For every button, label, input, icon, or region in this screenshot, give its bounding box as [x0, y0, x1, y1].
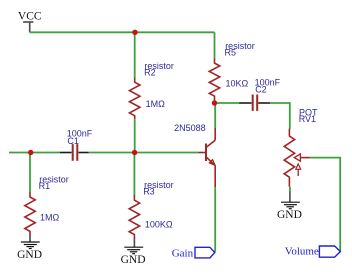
svg-text:GND: GND [17, 249, 42, 261]
svg-text:1MΩ: 1MΩ [40, 213, 60, 223]
ground for R1 [21, 235, 40, 249]
net flag Gain [195, 247, 215, 258]
node junction input R1 tap [28, 150, 33, 155]
net flag Volume [319, 246, 340, 257]
svg-text:R5: R5 [225, 48, 237, 58]
svg-text:R3: R3 [143, 187, 155, 197]
transistor Q1 2N5088 [199, 128, 216, 187]
svg-text:Volume: Volume [285, 246, 319, 258]
potentiometer RV1 [284, 129, 310, 187]
wire R1 top lead [29, 153, 31, 193]
ground for R3 [124, 238, 143, 253]
wire POT bottom to ground [289, 187, 291, 192]
wire collector to node [214, 104, 216, 128]
svg-text:R2: R2 [144, 68, 156, 78]
svg-text:VCC: VCC [18, 11, 42, 23]
node junction mid rail R3 tap [132, 150, 137, 155]
svg-text:RV1: RV1 [299, 114, 316, 124]
wire wiper to Volume [310, 158, 340, 251]
svg-text:GND: GND [277, 209, 302, 221]
svg-text:R1: R1 [39, 181, 51, 191]
node junction top rail R2 tap [132, 30, 137, 35]
power symbol VCC [23, 22, 33, 32]
svg-text:C2: C2 [255, 85, 267, 95]
wire top rail VCC [30, 31, 215, 33]
wire R2 bottom to mid rail [134, 119, 136, 152]
resistor R3 [129, 195, 139, 239]
resistor R2 [130, 78, 140, 120]
wire C2 to POT [270, 103, 290, 129]
resistor R5 [209, 59, 219, 101]
capacitor C2 [239, 95, 270, 111]
resistor R1 [25, 192, 35, 235]
wire R5 top lead [214, 32, 216, 59]
svg-text:1MΩ: 1MΩ [146, 99, 166, 109]
svg-text:2N5088: 2N5088 [174, 123, 206, 133]
node junction collector [212, 100, 217, 105]
wire emitter to Gain [214, 187, 216, 252]
svg-text:C1: C1 [67, 136, 79, 146]
svg-text:Gain: Gain [172, 247, 194, 259]
ground for RV1 [281, 192, 300, 209]
svg-text:GND: GND [121, 254, 146, 266]
svg-text:100KΩ: 100KΩ [145, 219, 173, 229]
wire mid rail C1 to base [89, 152, 199, 154]
capacitor C1 [60, 144, 89, 161]
wire R3 top lead [133, 153, 135, 196]
svg-text:10KΩ: 10KΩ [226, 78, 249, 88]
wire collector node rail [214, 100, 216, 103]
wire input mid rail [9, 152, 60, 154]
wire R2 top lead [134, 32, 136, 78]
